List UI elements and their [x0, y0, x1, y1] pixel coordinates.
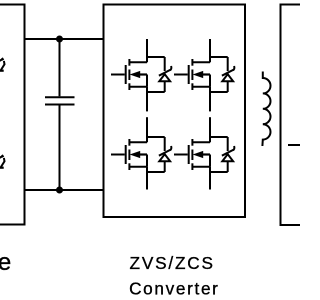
bottom DC bus wire: [25, 189, 104, 191]
capacitor C1 top lead: [59, 39, 61, 96]
ZVS/ZCS converter box: [104, 5, 246, 218]
transformer winding L1 (vertical coil): [262, 72, 270, 147]
left box (input stage, partially visible): [0, 5, 25, 225]
svg-text:ZVS/ZCS: ZVS/ZCS: [130, 253, 214, 273]
Q1 source wire: [146, 87, 148, 112]
wire stub inside right box: [288, 144, 302, 146]
svg-text:Converter: Converter: [129, 279, 218, 299]
MOSFET Q1 with body diode (top-left): [111, 57, 171, 92]
top DC bus wire: [25, 38, 104, 40]
Q1 drain wire: [146, 39, 148, 62]
Q2 drain wire: [209, 39, 211, 62]
junction node top: [56, 36, 63, 43]
Q3 source wire: [146, 167, 148, 190]
partial diode symbol D_in2 at left edge: [0, 156, 5, 169]
Q4 source wire: [209, 167, 211, 190]
junction node bottom: [56, 187, 63, 194]
right box (output stage, partially visible): [281, 5, 320, 226]
svg-text:e: e: [0, 249, 11, 276]
MOSFET Q4 with body diode (bottom-right): [174, 137, 234, 172]
MOSFET Q3 with body diode (bottom-left): [111, 137, 171, 172]
capacitor C1 top plate: [45, 96, 75, 98]
Q3 drain wire: [146, 117, 148, 142]
capacitor C1 bottom lead: [59, 106, 61, 191]
Q2 source wire: [209, 87, 211, 112]
MOSFET Q2 with body diode (top-right): [174, 57, 234, 92]
capacitor C1 bottom plate: [45, 104, 75, 106]
partial diode symbol D_in1 at left edge: [0, 59, 5, 72]
Q4 drain wire: [209, 117, 211, 142]
